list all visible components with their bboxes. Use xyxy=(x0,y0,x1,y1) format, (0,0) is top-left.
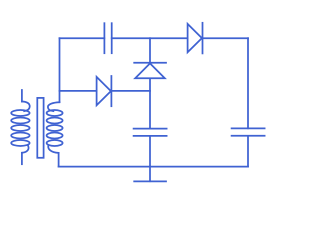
wire right rail upper xyxy=(247,38,249,128)
diode D2 xyxy=(134,63,166,79)
wire left rail xyxy=(59,38,61,102)
wire bottom rail xyxy=(59,166,248,168)
capacitor C3 xyxy=(232,128,265,135)
transformer T1 secondary winding L2 xyxy=(47,102,63,166)
wire top rail right segment xyxy=(203,37,249,39)
wire top rail middle segment xyxy=(112,37,188,39)
wire center column middle xyxy=(149,78,151,128)
ground xyxy=(134,167,166,182)
wire top rail left segment xyxy=(60,37,105,39)
capacitor C1 xyxy=(104,23,111,53)
wire middle right segment xyxy=(111,90,150,92)
transformer T1 primary winding L1 xyxy=(11,90,30,164)
capacitor C2 xyxy=(134,129,167,136)
wire right rail lower xyxy=(247,136,249,167)
diode D3 xyxy=(188,23,203,54)
transformer T1 core xyxy=(37,98,43,158)
diode D1 xyxy=(97,76,112,106)
wire center column lower xyxy=(149,136,151,167)
wire center column upper xyxy=(149,38,151,62)
wire middle left segment xyxy=(60,90,97,92)
